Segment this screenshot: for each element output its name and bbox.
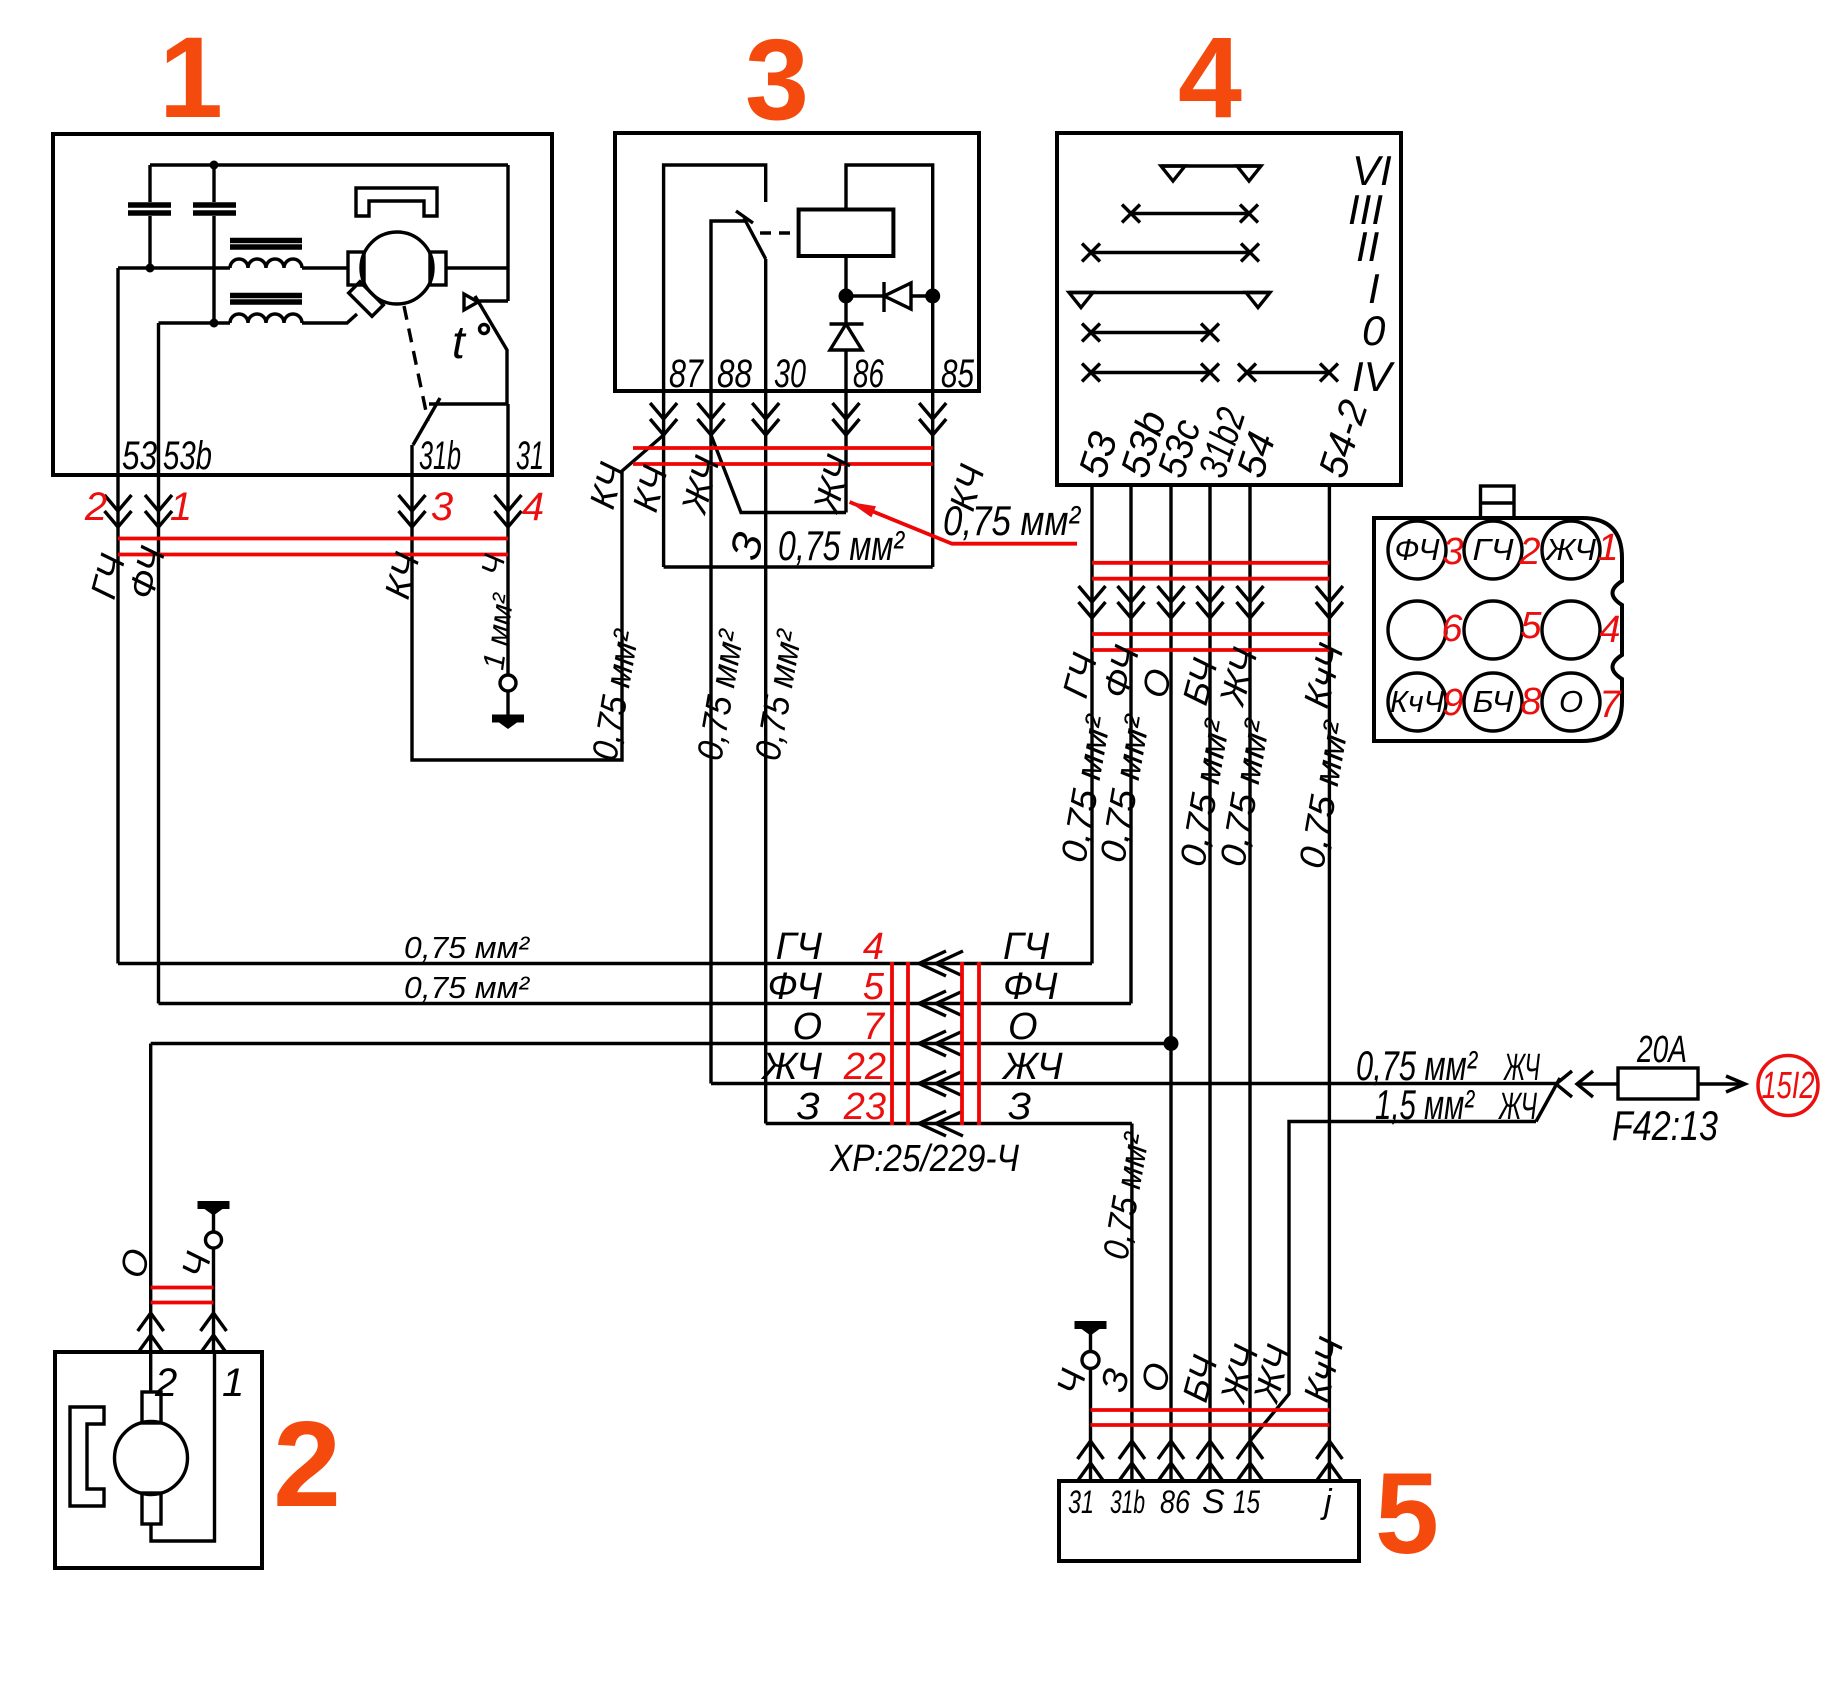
connector X4 red lines bottom <box>1092 634 1329 650</box>
ground G1 <box>492 715 524 730</box>
svg-text:ФЧ: ФЧ <box>1003 966 1058 1008</box>
arrows 85 <box>919 403 946 435</box>
svg-text:4: 4 <box>1599 609 1620 651</box>
arrows S <box>1197 1441 1223 1481</box>
arrows 86 <box>1158 1441 1184 1481</box>
wire fuse to feed <box>1698 1082 1744 1085</box>
arrows ГЧ <box>919 951 963 976</box>
svg-text:2: 2 <box>154 1361 177 1405</box>
wire 31b2 (БЧ) <box>1208 485 1211 1481</box>
box K1 relay <box>615 133 979 391</box>
wire 87 internal <box>664 165 766 391</box>
svg-text:ГЧ: ГЧ <box>1473 532 1514 567</box>
relay coil K1 <box>799 210 894 257</box>
wire 30 internal <box>764 259 767 391</box>
svg-text:85: 85 <box>941 352 975 396</box>
svg-text:2: 2 <box>1518 531 1540 573</box>
wire coil to 85 <box>846 165 933 391</box>
svg-text:4: 4 <box>863 926 884 968</box>
svg-text:О: О <box>1008 1006 1038 1048</box>
wire 53 (ГЧ) down <box>116 475 119 964</box>
arrows 53 <box>1079 586 1106 618</box>
arrows 53b <box>1118 586 1145 618</box>
svg-text:З: З <box>797 1086 820 1128</box>
thermal switch blade <box>475 296 507 404</box>
wire ГЧ row <box>118 962 1092 965</box>
svg-text:31: 31 <box>1068 1484 1094 1520</box>
svg-text:31b: 31b <box>1110 1484 1145 1520</box>
wire pin2 internal <box>149 1352 152 1392</box>
splice ring 31 <box>500 675 516 691</box>
svg-text:7: 7 <box>1599 684 1622 726</box>
svg-text:IV: IV <box>1352 353 1396 400</box>
svg-text:БЧ: БЧ <box>1473 684 1514 719</box>
brush bottom <box>142 1493 161 1524</box>
diode VD1 horizontal <box>846 294 933 297</box>
wire L2 to lower brush <box>302 314 357 323</box>
parking switch blade <box>413 398 440 445</box>
stator magnet bracket <box>356 188 437 216</box>
svg-text:0,75 мм²: 0,75 мм² <box>404 930 531 965</box>
wire 31 (Ч) down <box>506 475 509 675</box>
connector X2 red lines <box>151 1288 214 1303</box>
arrows ЖЧ fuse <box>1556 1071 1593 1097</box>
brush left <box>348 252 364 285</box>
svg-text:ЖЧ: ЖЧ <box>1544 532 1596 567</box>
box M2 washer pump <box>55 1352 262 1568</box>
svg-text:t: t <box>452 316 467 368</box>
svg-text:2: 2 <box>273 1396 341 1532</box>
box S1 switch <box>1057 133 1401 485</box>
brush lower-left (rotated) <box>349 282 384 317</box>
arrows 86 <box>833 403 860 435</box>
svg-text:31: 31 <box>516 434 544 478</box>
svg-text:ЖЧ: ЖЧ <box>1503 1047 1540 1089</box>
wire 85 down <box>931 391 934 567</box>
wire З row <box>766 1122 1132 1125</box>
arrows 15 <box>1237 1441 1263 1481</box>
node cap2-bottom <box>210 319 219 328</box>
arrows 30 <box>752 403 779 435</box>
arrows ЖЧ <box>919 1071 963 1096</box>
wire 54-2 (КчЧ) <box>1328 485 1331 1481</box>
arrows 54-2 <box>1316 586 1343 618</box>
connector arrows X1.2 <box>105 495 132 527</box>
row VI <box>1161 164 1261 167</box>
arrows 53c <box>1158 586 1185 618</box>
svg-text:З: З <box>1008 1086 1031 1128</box>
row III <box>1131 212 1249 215</box>
box A5 <box>1059 1481 1359 1561</box>
svg-text:1,5 мм²: 1,5 мм² <box>1375 1081 1475 1128</box>
wire 54 (ЖЧ) <box>1248 485 1251 1481</box>
svg-text:1: 1 <box>1597 527 1618 569</box>
node О junction <box>1164 1036 1179 1051</box>
wire 1,5 мм² branch <box>1250 1078 1560 1441</box>
svg-text:30: 30 <box>774 352 806 396</box>
connector X3 red lines <box>633 448 933 464</box>
svg-text:0,75 мм²: 0,75 мм² <box>404 970 531 1005</box>
brush top <box>142 1392 161 1423</box>
svg-text:3: 3 <box>431 485 453 529</box>
row 0 <box>1091 331 1210 334</box>
wire to fuse <box>1577 1082 1618 1085</box>
wire 31b inside <box>410 445 413 475</box>
wire Ч down <box>212 1248 215 1352</box>
arrows 31 <box>1078 1441 1104 1481</box>
svg-text:31b: 31b <box>419 434 461 478</box>
red lines XP right <box>962 962 979 1125</box>
wire 53b (ФЧ) <box>1129 485 1132 1004</box>
inductor L2 core <box>230 296 302 303</box>
svg-text:S: S <box>1202 1483 1225 1521</box>
svg-text:О: О <box>792 1006 822 1048</box>
capacitor C1 <box>148 165 151 202</box>
row I <box>1069 291 1270 294</box>
arrows З <box>919 1111 963 1136</box>
cavity БЧ(8) <box>1464 673 1522 731</box>
svg-text:5: 5 <box>1520 605 1542 647</box>
cavity ГЧ(2) <box>1464 521 1522 579</box>
svg-text:53: 53 <box>122 434 157 478</box>
dashed mechanical link <box>404 306 428 421</box>
svg-text:I: I <box>1368 265 1380 312</box>
svg-text:ГЧ: ГЧ <box>1003 926 1050 968</box>
wire 88 down (ЖЧ) <box>709 391 712 1084</box>
arrows 31b <box>1119 1441 1145 1481</box>
wire 88 to 86 jumper <box>711 435 846 513</box>
arrow head <box>1726 1076 1745 1092</box>
wire 87 down <box>662 391 665 567</box>
cavity ЖЧ(1) <box>1542 521 1600 579</box>
wire 53b (ФЧ) down <box>157 475 160 1004</box>
svg-text:0,75 мм²: 0,75 мм² <box>778 522 906 569</box>
svg-text:II: II <box>1356 223 1380 270</box>
relay contact blade <box>744 218 766 259</box>
svg-text:4: 4 <box>1178 14 1242 142</box>
svg-text:7: 7 <box>863 1006 886 1048</box>
connector arrows X1.3 <box>399 495 426 527</box>
connector key tab <box>1481 486 1515 518</box>
connector arrows X1.4 <box>495 495 522 527</box>
wire 88 internal <box>711 221 745 391</box>
arrows pin 2 <box>138 1313 164 1353</box>
node 86 <box>839 289 854 304</box>
svg-text:1: 1 <box>159 14 223 142</box>
arrows 31b2 <box>1197 586 1224 618</box>
dashed link to coil <box>760 231 797 234</box>
svg-text:4: 4 <box>522 485 544 529</box>
arrows 87 <box>650 403 677 435</box>
svg-text:ФЧ: ФЧ <box>1395 532 1440 567</box>
svg-text:6: 6 <box>1441 608 1463 650</box>
svg-text:88: 88 <box>717 352 753 396</box>
svg-text:1: 1 <box>222 1361 244 1405</box>
svg-text:0: 0 <box>1362 307 1386 354</box>
svg-text:20А: 20А <box>1636 1029 1687 1071</box>
svg-text:3: 3 <box>745 16 809 144</box>
svg-text:ЖЧ: ЖЧ <box>1498 1086 1538 1128</box>
wire О down <box>149 1044 152 1353</box>
svg-text:ХР:25/229-Ч: ХР:25/229-Ч <box>829 1138 1019 1180</box>
motor M1 <box>361 232 433 304</box>
row IV <box>1091 371 1329 374</box>
motor M2 <box>115 1422 188 1495</box>
inductor L1 coil <box>230 259 302 268</box>
arrows 88 <box>698 403 725 435</box>
wire Ч down <box>1089 1369 1092 1482</box>
svg-text:8: 8 <box>1520 681 1541 723</box>
svg-text:О: О <box>1559 684 1583 719</box>
svg-text:F42:13: F42:13 <box>1612 1102 1718 1149</box>
svg-text:КчЧ: КчЧ <box>1390 684 1444 719</box>
svg-text:87: 87 <box>669 352 704 396</box>
thermal contact t° <box>478 299 508 302</box>
row II <box>1091 251 1250 254</box>
svg-text:5: 5 <box>863 966 885 1008</box>
wire 53c (О) <box>1169 485 1172 1481</box>
brush right <box>430 252 446 285</box>
svg-text:ГЧ: ГЧ <box>776 926 823 968</box>
capacitor C2 <box>212 165 215 202</box>
wire cap2 to L2 <box>159 321 231 324</box>
wire 31b (КЧ) down <box>412 435 664 760</box>
inductor L1 core <box>230 241 302 248</box>
node 85 <box>925 289 940 304</box>
wire 86 down <box>844 391 847 513</box>
arrows 54 <box>1237 586 1264 618</box>
svg-text:ЖЧ: ЖЧ <box>760 1046 822 1088</box>
svg-text:86: 86 <box>853 352 885 396</box>
arrows pin 1 <box>201 1313 227 1353</box>
connector X1 red lines <box>118 539 508 555</box>
arrows ФЧ <box>919 991 963 1016</box>
svg-text:2: 2 <box>84 485 107 529</box>
svg-text:ЖЧ: ЖЧ <box>1001 1046 1063 1088</box>
cavity О(7) <box>1542 673 1600 731</box>
node cap2-top <box>210 161 219 170</box>
svg-text:3: 3 <box>1442 531 1463 573</box>
cavity КчЧ(9) <box>1388 673 1446 731</box>
fuse F42:13 <box>1618 1068 1698 1099</box>
svg-text:15I2: 15I2 <box>1762 1065 1815 1107</box>
arrows О <box>919 1031 963 1056</box>
wire right brush to bus <box>446 266 508 269</box>
svg-text:23: 23 <box>843 1086 886 1128</box>
arrows j <box>1316 1441 1342 1481</box>
svg-text:15: 15 <box>1233 1484 1260 1520</box>
wire 31 inside <box>506 404 509 475</box>
wire bus down <box>506 165 509 301</box>
connector body <box>1374 518 1622 741</box>
box U1 wiper motor <box>53 134 552 475</box>
wire З down <box>1130 1124 1133 1482</box>
cavity 5 <box>1464 601 1522 659</box>
red lines XP left <box>892 962 908 1125</box>
wire О row <box>151 1042 1171 1045</box>
wire ЖЧ row <box>711 1082 1556 1085</box>
connector X4 red lines top <box>1092 563 1329 579</box>
cavity ФЧ(3) <box>1388 521 1446 579</box>
inductor L2 coil <box>230 314 302 323</box>
connector arrows X1.1 <box>145 495 172 527</box>
wire coil to 86 <box>844 256 847 324</box>
diode VD2 vertical <box>830 322 864 325</box>
wire pin1 internal <box>151 1352 215 1541</box>
ground G2 <box>198 1201 230 1216</box>
splice ring Ч <box>1082 1352 1099 1369</box>
cavity 6 <box>1388 601 1446 659</box>
wire 53 (ГЧ) <box>1090 485 1093 964</box>
wire top bus <box>150 163 508 166</box>
svg-text:ФЧ: ФЧ <box>768 966 823 1008</box>
stator magnet bracket <box>70 1407 104 1506</box>
splice ring Ч <box>206 1232 222 1248</box>
svg-text:9: 9 <box>1442 682 1463 724</box>
svg-text:5: 5 <box>1375 1450 1439 1578</box>
node cap1-bottom <box>146 264 155 273</box>
wire parking contact <box>429 402 508 405</box>
contact tick <box>736 211 753 223</box>
svg-text:22: 22 <box>843 1046 886 1088</box>
svg-text:86: 86 <box>1160 1484 1190 1520</box>
wire 53 to armature <box>118 266 348 269</box>
svg-text:53b: 53b <box>163 434 212 478</box>
svg-text:0,75 мм²: 0,75 мм² <box>943 497 1082 544</box>
feed circle 15/2 <box>1758 1056 1818 1116</box>
wire 30 down (З) <box>764 391 767 1124</box>
wire 87 to 85 jumper <box>664 565 933 568</box>
wire ФЧ row <box>159 1002 1132 1005</box>
svg-text:1: 1 <box>170 485 192 529</box>
ground G3 <box>1075 1321 1107 1336</box>
cavity 4 <box>1542 601 1600 659</box>
connector X5 red lines <box>1091 1410 1330 1425</box>
